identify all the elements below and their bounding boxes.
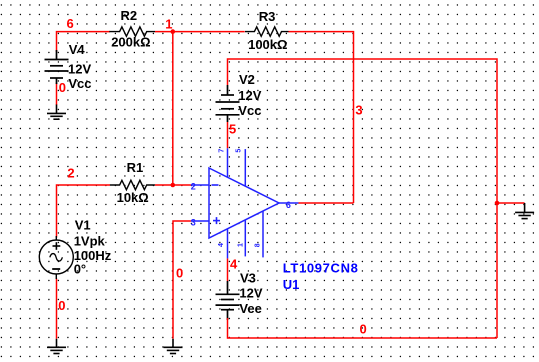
node 1 junction (171, 29, 176, 34)
resistor R2 labels (111, 8, 150, 50)
junction at right rail to ground (495, 201, 500, 206)
svg-text:7: 7 (219, 149, 226, 153)
svg-text:Vcc: Vcc (68, 76, 91, 91)
op-amp pin 5 (trim) (244, 149, 246, 186)
op-amp plus sign (213, 217, 220, 224)
svg-text:0: 0 (176, 266, 183, 281)
junction at R1 / node 1 / op-amp minus (171, 183, 176, 188)
wire: V2 top to right rail down to bottom (node 0 rail) (228, 59, 498, 338)
wire: bottom rail V3 to right rail (228, 337, 498, 339)
wire: R1 right to inverting input (155, 184, 191, 186)
svg-text:5: 5 (229, 122, 236, 137)
op-amp pin 7 (V+) (227, 148, 229, 177)
svg-text:R2: R2 (121, 8, 138, 23)
svg-text:12V: 12V (238, 88, 261, 103)
op-amp pin 2 (inverting input) (191, 184, 209, 186)
svg-text:200kΩ: 200kΩ (111, 34, 150, 49)
svg-text:V1: V1 (75, 217, 91, 232)
resistor R1 labels (117, 160, 149, 205)
pin 1 number (237, 243, 244, 247)
battery V4 (45, 50, 69, 84)
ground (below V1) (47, 339, 66, 354)
node 0 label (V1) (58, 298, 65, 313)
resistor R3 labels (248, 9, 287, 52)
wire: V1 top to R1 (node 2) (57, 185, 111, 238)
svg-text:0: 0 (360, 321, 367, 336)
svg-text:100kΩ: 100kΩ (248, 37, 287, 52)
op-amp pin 8 (comp) (262, 211, 264, 257)
svg-text:1Vpk: 1Vpk (74, 234, 106, 249)
node 0 label (bottom rail) (360, 321, 367, 336)
op-amp U1 body (209, 168, 279, 238)
svg-text:2: 2 (67, 166, 74, 181)
battery V3 labels (239, 270, 262, 316)
svg-text:0°: 0° (74, 262, 86, 277)
node 2 label (67, 166, 74, 181)
op-amp pin 3 (non-inverting input) (191, 220, 209, 222)
op-amp minus sign (212, 184, 219, 186)
svg-text:2: 2 (191, 182, 196, 192)
source V1 labels (74, 217, 112, 276)
wire: V3 bottom to bottom rail (227, 318, 229, 339)
svg-text:4: 4 (230, 257, 238, 272)
node 0 label (center) (176, 266, 183, 281)
wire: op-amp output to node 3 corner (299, 202, 354, 204)
node 6 label (67, 16, 74, 31)
svg-text:V4: V4 (69, 42, 86, 57)
svg-text:0: 0 (58, 298, 65, 313)
svg-text:4: 4 (218, 243, 225, 247)
op-amp pin 1 (trim) (244, 220, 246, 256)
svg-text:V2: V2 (239, 72, 255, 87)
ground (right) (515, 203, 534, 219)
resistor R2 (109, 27, 155, 36)
battery V3 (216, 281, 240, 320)
svg-text:LT1097CN8: LT1097CN8 (283, 260, 359, 275)
node 5 label (229, 122, 236, 137)
svg-text:Vcc: Vcc (238, 103, 261, 118)
svg-text:R3: R3 (259, 9, 276, 24)
wire: V1 bottom to ground (56, 279, 58, 339)
op-amp U1 labels (283, 260, 359, 292)
node 4 label (230, 257, 238, 272)
svg-text:6: 6 (286, 200, 291, 210)
resistor R3 (245, 27, 289, 36)
pin 5 number (236, 149, 243, 153)
pin 6 number (286, 200, 291, 210)
wire: V2 bottom to op-amp V+ pin (node 5) (227, 122, 229, 148)
node 3 label (355, 103, 362, 118)
wire: V4 bottom to ground (node 0) (56, 83, 58, 105)
op-amp pin 4 (V-) (227, 229, 229, 258)
wire: R3 right, down to output net (node 3) (289, 32, 354, 203)
svg-text:1: 1 (165, 17, 172, 32)
pin 8 number (254, 243, 261, 247)
svg-text:3: 3 (191, 217, 196, 227)
svg-text:1: 1 (237, 243, 244, 247)
svg-text:8: 8 (254, 243, 261, 247)
wire: R2 right to R3 left through node 1 (155, 31, 245, 33)
node 1 label (165, 17, 172, 32)
node 0 label (V4) (59, 80, 66, 95)
source V1 (39, 236, 73, 279)
op-amp pin 6 (output) (279, 202, 299, 204)
ground (below V4) (47, 105, 66, 120)
svg-text:3: 3 (355, 103, 362, 118)
pin 4 number (218, 243, 225, 247)
wire: V4 top to R2 (node 6) (57, 32, 111, 52)
wire: op-amp plus input down to center ground (173, 221, 191, 339)
pin 3 number (191, 217, 196, 227)
battery V4 labels (68, 42, 92, 91)
battery V2 (216, 85, 240, 122)
svg-text:U1: U1 (283, 277, 300, 292)
pin 2 number (191, 182, 196, 192)
wire: op-amp V- pin to V3 top (node 4) (227, 258, 229, 281)
svg-text:Vee: Vee (239, 301, 261, 316)
svg-text:6: 6 (67, 16, 74, 31)
svg-text:5: 5 (236, 149, 243, 153)
svg-text:0: 0 (59, 80, 66, 95)
svg-text:R1: R1 (127, 160, 144, 175)
battery V2 labels (238, 72, 261, 118)
wire: right rail to right ground (497, 202, 525, 204)
svg-text:12V: 12V (68, 61, 91, 76)
svg-text:V3: V3 (240, 270, 256, 285)
svg-text:12V: 12V (239, 286, 262, 301)
svg-text:10kΩ: 10kΩ (117, 190, 149, 205)
resistor R1 (110, 180, 155, 189)
wire: node 1 down to inverting input (172, 32, 174, 185)
ground (center, below op-amp plus net) (164, 339, 183, 354)
pin 7 number (219, 149, 226, 153)
